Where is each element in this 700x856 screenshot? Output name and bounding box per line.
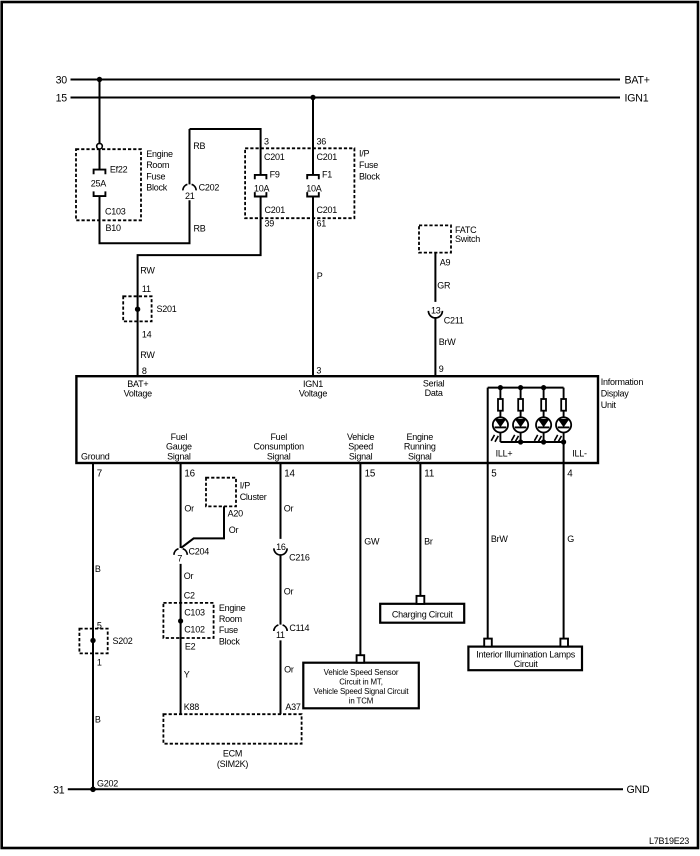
svg-text:A9: A9 bbox=[440, 257, 451, 267]
svg-text:10A: 10A bbox=[306, 183, 322, 193]
svg-text:Signal: Signal bbox=[349, 451, 373, 461]
svg-text:BAT+: BAT+ bbox=[625, 75, 650, 87]
svg-text:Engine: Engine bbox=[219, 603, 246, 613]
svg-text:Vehicle: Vehicle bbox=[347, 432, 375, 442]
svg-text:E2: E2 bbox=[185, 641, 196, 651]
svg-text:3: 3 bbox=[264, 136, 269, 146]
svg-text:7: 7 bbox=[177, 554, 182, 564]
svg-text:8: 8 bbox=[142, 366, 147, 376]
svg-text:C2: C2 bbox=[184, 590, 195, 600]
svg-text:16: 16 bbox=[276, 542, 286, 552]
svg-text:15: 15 bbox=[365, 468, 376, 479]
svg-text:Block: Block bbox=[146, 183, 168, 193]
svg-text:L7B19E23: L7B19E23 bbox=[649, 836, 689, 846]
svg-text:Y: Y bbox=[184, 670, 190, 680]
svg-text:13: 13 bbox=[431, 305, 441, 315]
svg-text:Br: Br bbox=[424, 537, 433, 547]
svg-text:Block: Block bbox=[359, 171, 381, 181]
svg-text:Display: Display bbox=[601, 389, 630, 399]
svg-text:14: 14 bbox=[284, 468, 295, 479]
svg-text:Signal: Signal bbox=[167, 451, 191, 461]
svg-text:21: 21 bbox=[185, 191, 195, 201]
svg-text:C102: C102 bbox=[184, 625, 205, 635]
svg-text:GR: GR bbox=[437, 280, 451, 290]
svg-text:K88: K88 bbox=[184, 702, 200, 712]
svg-text:7: 7 bbox=[97, 468, 102, 479]
svg-text:C211: C211 bbox=[444, 316, 464, 326]
svg-text:Circuit in MT,: Circuit in MT, bbox=[339, 677, 383, 686]
svg-text:31: 31 bbox=[53, 785, 65, 797]
svg-text:4: 4 bbox=[567, 468, 573, 479]
svg-text:RB: RB bbox=[193, 141, 205, 151]
svg-text:C103: C103 bbox=[184, 608, 205, 618]
svg-text:Information: Information bbox=[601, 377, 644, 387]
svg-text:Data: Data bbox=[425, 388, 443, 398]
svg-text:GND: GND bbox=[627, 784, 650, 796]
svg-text:C202: C202 bbox=[199, 182, 220, 192]
svg-text:G202: G202 bbox=[97, 778, 118, 788]
svg-text:Ef22: Ef22 bbox=[110, 164, 128, 174]
svg-text:C216: C216 bbox=[289, 553, 310, 563]
svg-text:Signal: Signal bbox=[267, 451, 291, 461]
svg-text:P: P bbox=[317, 271, 323, 281]
svg-text:F1: F1 bbox=[322, 169, 332, 179]
svg-text:11: 11 bbox=[142, 284, 151, 294]
svg-text:Serial: Serial bbox=[423, 378, 445, 388]
svg-text:C201: C201 bbox=[317, 205, 338, 215]
svg-text:Vehicle Speed Signal Circuit: Vehicle Speed Signal Circuit bbox=[314, 687, 410, 696]
svg-text:I/P: I/P bbox=[240, 480, 251, 490]
svg-text:Speed: Speed bbox=[348, 442, 373, 452]
svg-text:C103: C103 bbox=[105, 206, 126, 216]
svg-text:GW: GW bbox=[364, 537, 380, 547]
svg-text:Or: Or bbox=[284, 503, 294, 513]
svg-text:Voltage: Voltage bbox=[299, 389, 328, 399]
svg-text:16: 16 bbox=[184, 468, 195, 479]
svg-text:61: 61 bbox=[317, 219, 327, 229]
svg-text:14: 14 bbox=[142, 329, 152, 339]
svg-text:30: 30 bbox=[56, 74, 68, 86]
svg-text:Or: Or bbox=[184, 571, 194, 581]
svg-text:Ground: Ground bbox=[81, 451, 110, 461]
svg-text:Or: Or bbox=[184, 503, 194, 513]
svg-text:BAT+: BAT+ bbox=[127, 379, 148, 389]
svg-text:Or: Or bbox=[229, 525, 239, 535]
svg-text:Interior Illumination Lamps: Interior Illumination Lamps bbox=[476, 649, 576, 659]
svg-text:5: 5 bbox=[491, 468, 497, 479]
svg-text:(SIM2K): (SIM2K) bbox=[217, 759, 249, 769]
svg-text:B: B bbox=[95, 714, 101, 724]
svg-text:A20: A20 bbox=[228, 508, 244, 518]
svg-text:10A: 10A bbox=[254, 183, 270, 193]
svg-text:36: 36 bbox=[317, 136, 327, 146]
svg-text:Or: Or bbox=[284, 587, 294, 597]
svg-text:RB: RB bbox=[194, 224, 206, 234]
svg-text:Fuel: Fuel bbox=[270, 432, 287, 442]
svg-text:15: 15 bbox=[56, 92, 68, 104]
svg-text:Fuse: Fuse bbox=[219, 625, 238, 635]
svg-text:IGN1: IGN1 bbox=[625, 93, 649, 105]
svg-text:Voltage: Voltage bbox=[124, 389, 153, 399]
svg-text:F9: F9 bbox=[270, 169, 280, 179]
svg-text:Gauge: Gauge bbox=[166, 442, 192, 452]
svg-text:S201: S201 bbox=[157, 304, 177, 314]
svg-text:Consumption: Consumption bbox=[254, 442, 305, 452]
svg-text:Fuse: Fuse bbox=[146, 171, 165, 181]
svg-text:Fuel: Fuel bbox=[171, 432, 188, 442]
svg-text:Engine: Engine bbox=[146, 149, 173, 159]
svg-text:Block: Block bbox=[219, 636, 241, 646]
svg-text:RW: RW bbox=[140, 265, 155, 275]
svg-text:Signal: Signal bbox=[408, 451, 432, 461]
svg-text:Room: Room bbox=[219, 614, 242, 624]
svg-text:Room: Room bbox=[146, 160, 169, 170]
svg-text:B10: B10 bbox=[106, 223, 122, 233]
svg-text:Engine: Engine bbox=[407, 432, 434, 442]
svg-text:RW: RW bbox=[140, 350, 155, 360]
svg-text:C204: C204 bbox=[189, 547, 210, 557]
svg-text:ECM: ECM bbox=[223, 749, 242, 759]
svg-text:11: 11 bbox=[276, 630, 285, 640]
svg-text:Or: Or bbox=[284, 665, 294, 675]
svg-text:ILL+: ILL+ bbox=[496, 448, 513, 458]
svg-text:C201: C201 bbox=[265, 205, 286, 215]
svg-text:G: G bbox=[567, 534, 574, 544]
svg-text:11: 11 bbox=[424, 468, 434, 479]
svg-text:9: 9 bbox=[439, 364, 444, 374]
svg-text:S202: S202 bbox=[113, 636, 133, 646]
svg-text:Unit: Unit bbox=[601, 400, 617, 410]
svg-text:I/P: I/P bbox=[359, 148, 370, 158]
svg-text:C114: C114 bbox=[289, 623, 309, 633]
svg-text:Switch: Switch bbox=[455, 234, 480, 244]
svg-text:A37: A37 bbox=[285, 702, 301, 712]
svg-text:Fuse: Fuse bbox=[359, 160, 378, 170]
svg-text:in TCM: in TCM bbox=[349, 696, 373, 705]
svg-text:5: 5 bbox=[97, 620, 102, 630]
svg-text:B: B bbox=[95, 564, 101, 574]
svg-text:39: 39 bbox=[265, 219, 275, 229]
svg-text:BrW: BrW bbox=[491, 534, 509, 544]
svg-text:Charging Circuit: Charging Circuit bbox=[392, 610, 453, 620]
svg-text:Cluster: Cluster bbox=[240, 492, 267, 502]
svg-text:Running: Running bbox=[404, 442, 436, 452]
svg-text:3: 3 bbox=[316, 365, 321, 375]
svg-text:25A: 25A bbox=[91, 178, 107, 188]
svg-text:ILL-: ILL- bbox=[572, 448, 587, 458]
svg-text:Circuit: Circuit bbox=[514, 659, 539, 669]
svg-text:C201: C201 bbox=[317, 152, 338, 162]
svg-text:Vehicle Speed Sensor: Vehicle Speed Sensor bbox=[324, 668, 399, 677]
svg-text:C201: C201 bbox=[264, 152, 285, 162]
svg-text:BrW: BrW bbox=[439, 337, 457, 347]
svg-text:IGN1: IGN1 bbox=[303, 379, 323, 389]
svg-text:1: 1 bbox=[97, 657, 102, 667]
